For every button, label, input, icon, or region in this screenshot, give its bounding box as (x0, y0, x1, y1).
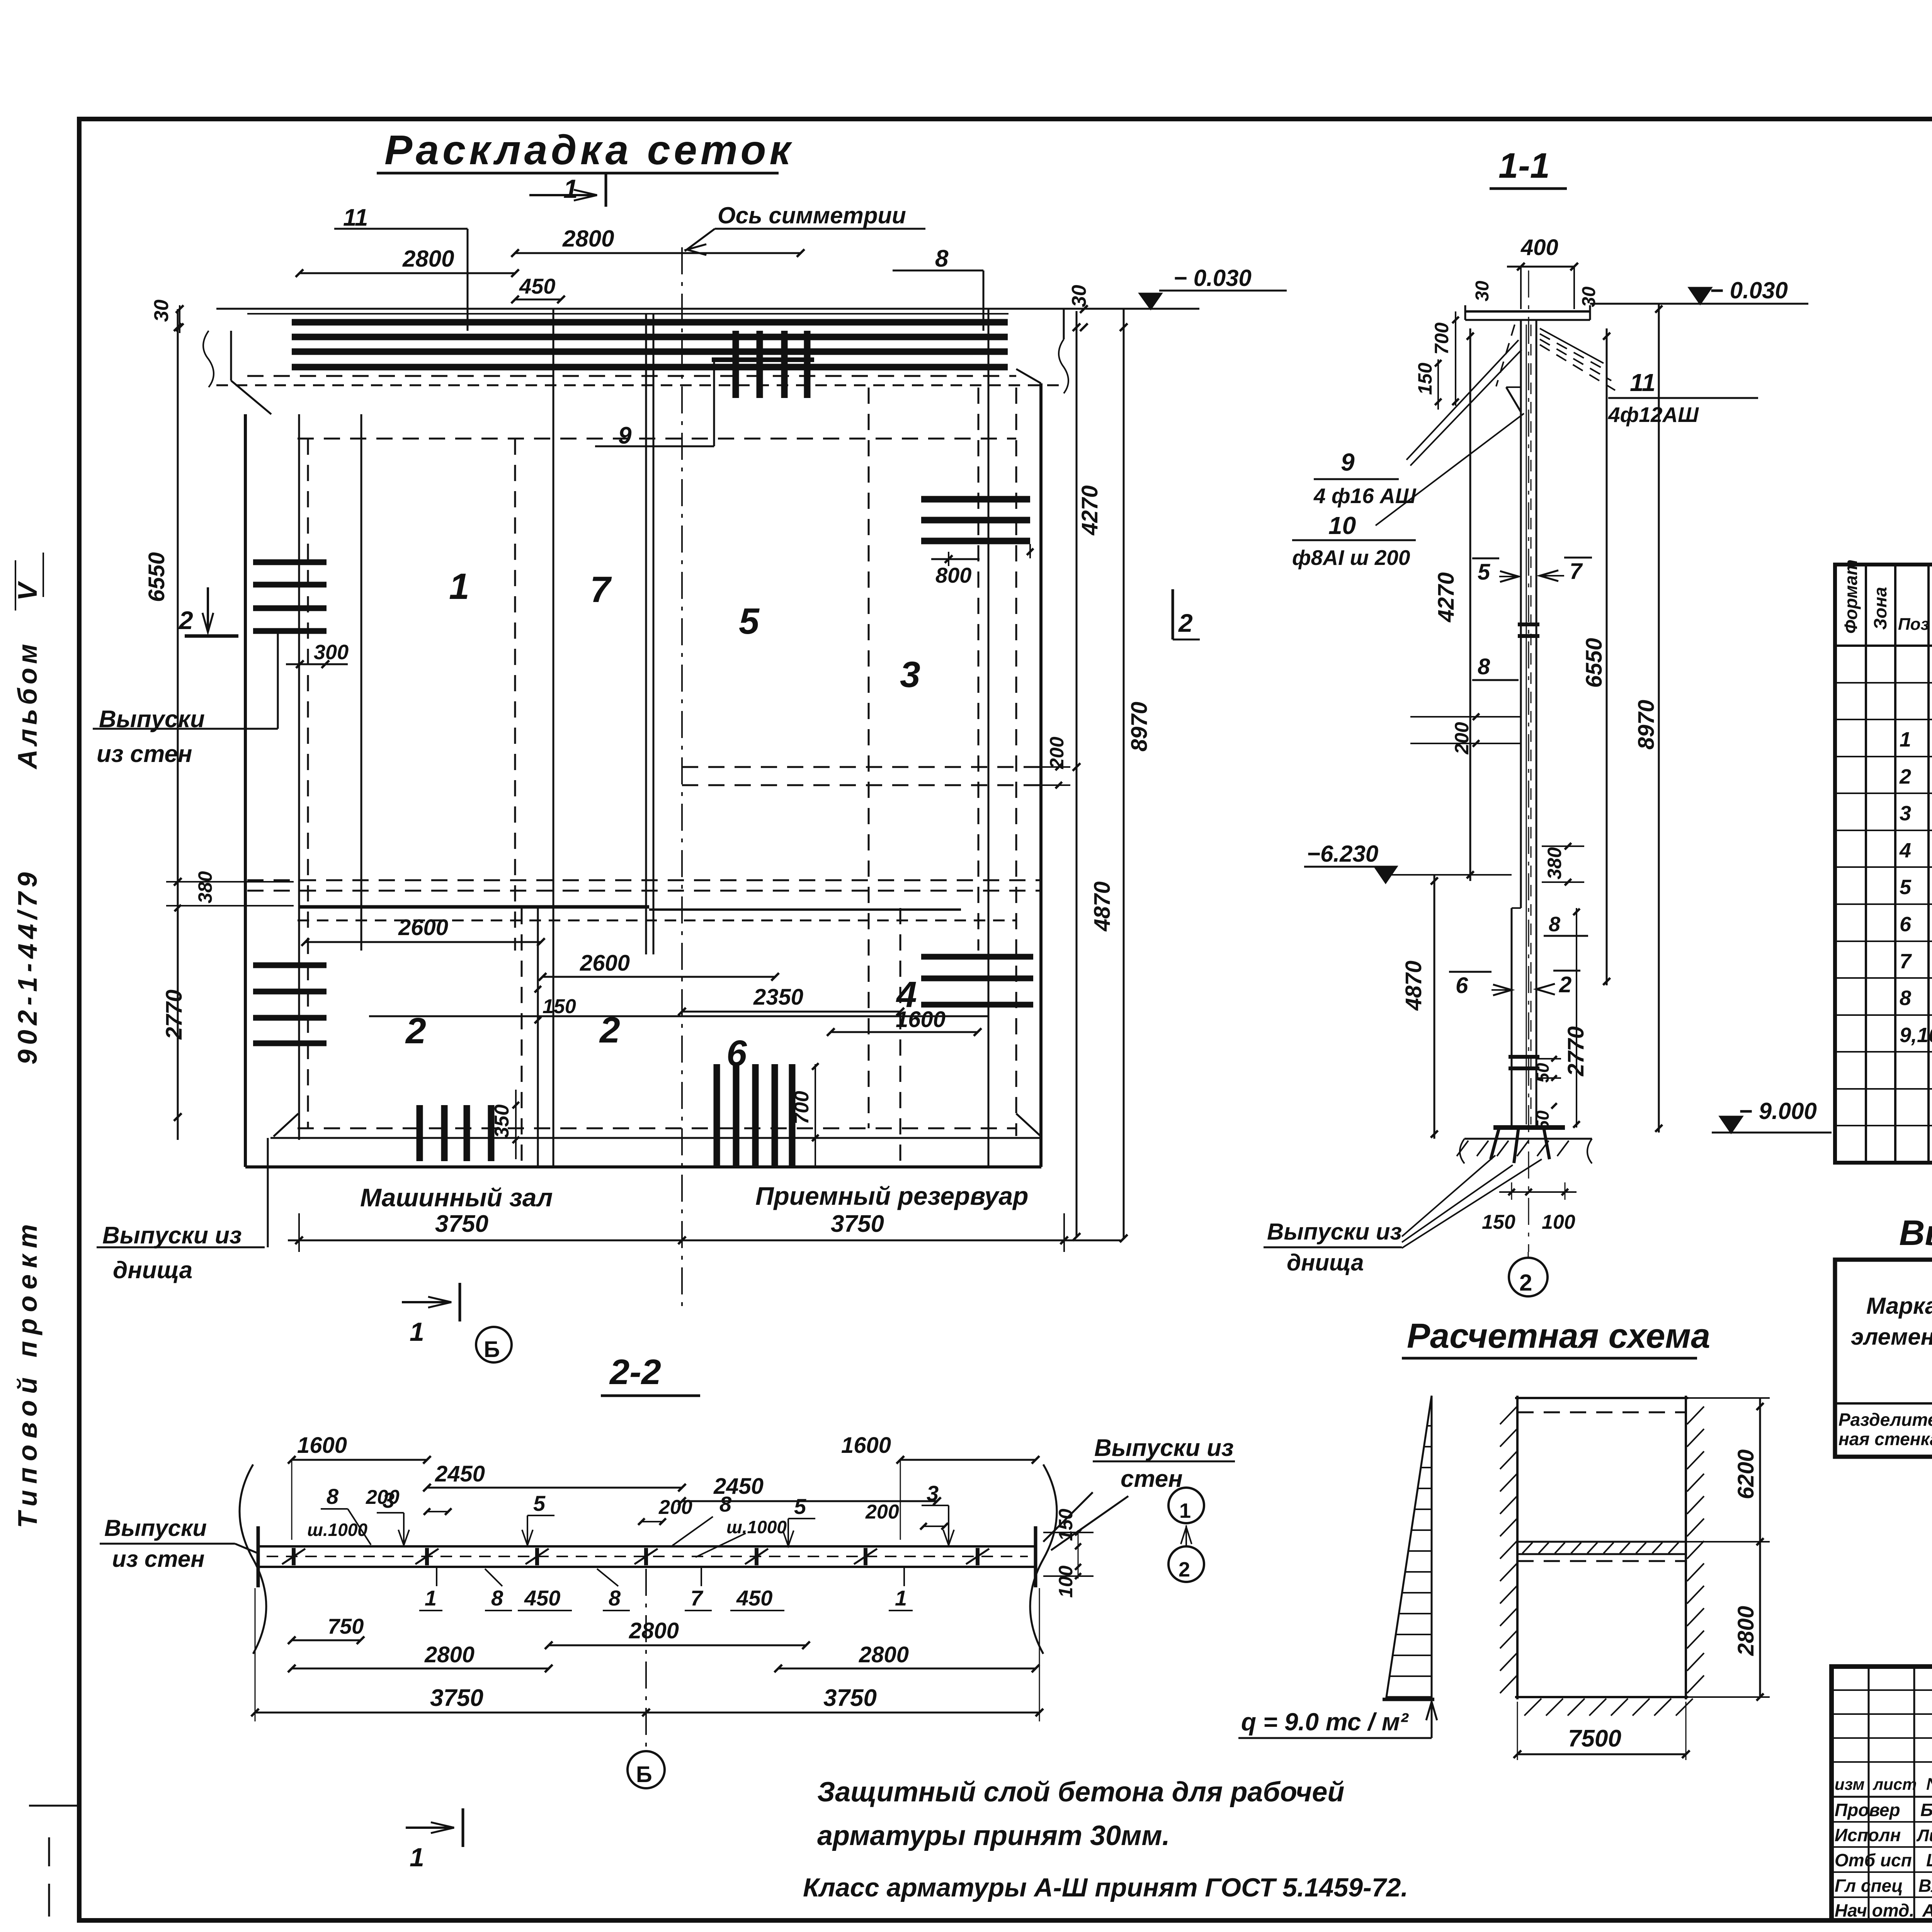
2-2 beam mesh joints (292, 1548, 296, 1565)
svg-text:5: 5 (1478, 560, 1490, 585)
svg-text:2350: 2350 (753, 985, 803, 1010)
svg-text:Раскладка сеток: Раскладка сеток (384, 126, 794, 173)
plan top wall right end (1063, 309, 1065, 339)
plan inner wall dashed left (307, 439, 309, 1128)
svg-text:200: 200 (1046, 736, 1068, 769)
svg-text:7500: 7500 (1568, 1725, 1621, 1752)
svg-text:Отб исп: Отб исп (1835, 1850, 1912, 1870)
svg-text:150: 150 (1414, 362, 1436, 395)
svg-text:200: 200 (865, 1501, 899, 1523)
svg-text:ная стенка: ная стенка (1838, 1429, 1932, 1449)
svg-text:30: 30 (150, 299, 173, 322)
1-1 mesh splice marks lower (1509, 1055, 1539, 1059)
svg-text:700: 700 (791, 1091, 813, 1124)
bar group right lower (921, 954, 1033, 960)
svg-text:3: 3 (383, 1488, 395, 1512)
plan internal vertical dashed f (978, 388, 980, 951)
svg-text:1600: 1600 (896, 1007, 946, 1032)
plan outer wall left edge (244, 414, 247, 1167)
svg-text:4870: 4870 (1090, 881, 1115, 932)
svg-text:100: 100 (1055, 1565, 1077, 1598)
svg-text:3: 3 (900, 654, 920, 695)
svg-text:6200: 6200 (1733, 1449, 1759, 1499)
svg-text:300: 300 (314, 641, 349, 664)
axis circle Б plan (476, 1327, 512, 1362)
svg-text:− 9.000: − 9.000 (1739, 1098, 1817, 1124)
svg-text:Ось симметрии: Ось симметрии (718, 202, 906, 228)
1-1 leader lines to 9 and 10 (1406, 340, 1519, 460)
svg-text:4270: 4270 (1077, 485, 1102, 536)
svg-text:днища: днища (1287, 1250, 1364, 1276)
svg-text:7: 7 (690, 1586, 704, 1610)
axis circle 2 of section (1509, 1258, 1548, 1296)
plan mid dashed pair (247, 879, 1041, 881)
svg-text:9: 9 (618, 422, 632, 449)
svg-text:Марка: Марка (1866, 1293, 1932, 1319)
svg-text:1: 1 (410, 1843, 424, 1872)
svg-text:Выпуски из: Выпуски из (102, 1222, 242, 1249)
2-2 axis circles 1 2 (1168, 1488, 1204, 1523)
svg-text:700: 700 (1431, 322, 1452, 355)
svg-text:2: 2 (1899, 765, 1911, 788)
plan inner wall left face (298, 414, 300, 1140)
svg-text:200: 200 (658, 1496, 692, 1519)
svg-text:Шкляр: Шкляр (1926, 1850, 1932, 1870)
svg-text:2600: 2600 (398, 915, 448, 940)
svg-text:3750: 3750 (430, 1685, 483, 1711)
svg-text:30: 30 (1579, 286, 1599, 307)
svg-text:30: 30 (1472, 281, 1493, 301)
svg-text:q = 9.0 тс / м²: q = 9.0 тс / м² (1241, 1708, 1409, 1736)
svg-text:ш.1000: ш.1000 (726, 1517, 787, 1537)
svg-text:7: 7 (590, 569, 612, 610)
1-1 top cap (1465, 310, 1590, 313)
svg-text:2: 2 (1178, 609, 1193, 637)
plan internal vertical g (988, 309, 990, 1167)
svg-text:Класс арматуры А-Ш принят ГО: Класс арматуры А-Ш принят ГОСТ 5.1459-72… (803, 1873, 1408, 1902)
svg-text:3750: 3750 (823, 1685, 877, 1711)
svg-text:450: 450 (524, 1586, 560, 1610)
svg-text:380: 380 (194, 871, 216, 903)
svg-text:2: 2 (599, 1010, 620, 1051)
svg-text:5: 5 (794, 1494, 806, 1519)
plan top wall left end break (230, 331, 232, 381)
svg-text:2: 2 (405, 1010, 426, 1051)
svg-text:2: 2 (178, 606, 193, 634)
soil hatch right (1687, 1406, 1704, 1424)
1-1 centre axis (1528, 270, 1529, 1252)
svg-text:30: 30 (1068, 285, 1090, 307)
svg-text:из стен: из стен (112, 1546, 204, 1572)
svg-text:− 0.030: − 0.030 (1710, 277, 1788, 303)
bar group bottom left vertical (417, 1105, 423, 1161)
plan top wall outline (216, 308, 1199, 310)
svg-text:Формат: Формат (1841, 560, 1861, 634)
svg-text:2800: 2800 (562, 226, 614, 252)
load triangle (1386, 1396, 1432, 1697)
svg-text:2: 2 (1559, 972, 1571, 997)
plan outer wall right edge (1039, 383, 1043, 1167)
bar group left upper (253, 560, 327, 565)
svg-text:изм: изм (1835, 1775, 1865, 1793)
load arrow (1431, 1702, 1433, 1738)
svg-text:Разделитель-: Разделитель- (1838, 1410, 1932, 1430)
svg-text:Машинный зал: Машинный зал (360, 1183, 553, 1212)
svg-text:Боровик: Боровик (1920, 1800, 1932, 1820)
2-2 beam inner dashes (267, 1556, 1028, 1557)
svg-text:Поз: Поз (1898, 615, 1929, 634)
tank walls (1516, 1396, 1519, 1699)
plan inner wall dashed right (1015, 388, 1017, 1136)
svg-text:2450: 2450 (435, 1461, 485, 1486)
bar group bottom middle vertical (714, 1064, 720, 1167)
1-1 leader lines to 11 (1540, 328, 1604, 363)
svg-text:1: 1 (1179, 1499, 1191, 1522)
svg-text:Выпуски из: Выпуски из (1267, 1219, 1402, 1245)
svg-text:2770: 2770 (162, 990, 187, 1040)
svg-text:Зона: Зона (1870, 587, 1890, 630)
svg-text:7: 7 (1900, 950, 1912, 973)
svg-text:902-1-44/79: 902-1-44/79 (12, 867, 43, 1065)
plan internal vertical double d (645, 314, 647, 954)
svg-text:Власенко: Власенко (1918, 1876, 1932, 1896)
svg-text:− 0.030: − 0.030 (1173, 265, 1252, 291)
svg-text:8: 8 (327, 1484, 339, 1509)
svg-text:Гл спец: Гл спец (1835, 1876, 1903, 1896)
svg-text:1: 1 (895, 1586, 907, 1610)
svg-text:5: 5 (739, 601, 760, 642)
load triangle base (1383, 1698, 1434, 1701)
2-2 axis circle Б (628, 1751, 665, 1788)
svg-text:8: 8 (719, 1492, 732, 1516)
svg-text:лист: лист (1872, 1775, 1917, 1793)
svg-text:Типовой проект: Типовой проект (12, 1218, 43, 1528)
svg-text:Выпуски из: Выпуски из (1094, 1435, 1234, 1461)
plan internal vertical dashed b (514, 439, 516, 951)
svg-text:№докум.: №докум. (1926, 1775, 1932, 1794)
bar group right upper (921, 496, 1030, 503)
2-2 right break arc (1030, 1464, 1057, 1654)
svg-text:арматуры принят 30мм.: арматуры принят 30мм. (817, 1820, 1170, 1851)
svg-text:150: 150 (1482, 1211, 1515, 1233)
section mark 1 bottom (402, 1301, 451, 1303)
svg-text:2800: 2800 (629, 1618, 679, 1643)
svg-text:ш.1000: ш.1000 (307, 1520, 367, 1540)
svg-text:4 ф16 АШ: 4 ф16 АШ (1313, 484, 1417, 508)
1-1 wall inner bars (1526, 325, 1527, 1124)
svg-text:8970: 8970 (1634, 700, 1659, 750)
svg-text:4: 4 (1899, 839, 1911, 862)
svg-text:4870: 4870 (1401, 961, 1426, 1011)
svg-text:1600: 1600 (841, 1433, 891, 1458)
svg-text:6: 6 (1900, 913, 1912, 936)
svg-text:Альбом: Альбом (12, 640, 43, 770)
plan top wall dashed lines (247, 375, 1016, 377)
svg-text:6550: 6550 (1582, 638, 1607, 688)
svg-text:днища: днища (113, 1257, 192, 1284)
2-2 beam outline (258, 1545, 1036, 1548)
svg-text:450: 450 (736, 1586, 772, 1610)
svg-text:Нач отд.: Нач отд. (1835, 1900, 1914, 1920)
svg-text:1600: 1600 (297, 1433, 347, 1458)
svg-text:2800: 2800 (859, 1642, 909, 1667)
svg-text:1: 1 (425, 1586, 437, 1610)
svg-text:3750: 3750 (435, 1211, 488, 1237)
svg-text:150: 150 (543, 995, 576, 1018)
svg-text:8970: 8970 (1127, 702, 1152, 752)
svg-text:400: 400 (1520, 235, 1558, 260)
plan internal vertical mesh line a (361, 414, 362, 951)
svg-text:11: 11 (343, 204, 368, 231)
svg-text:5: 5 (1900, 876, 1912, 899)
mesh 2 right edge lines (521, 908, 523, 1167)
svg-text:Приемный резервуар: Приемный резервуар (755, 1182, 1028, 1210)
svg-text:50: 50 (1532, 1110, 1553, 1130)
title block left grid horizontals (1832, 1689, 1932, 1691)
svg-text:3: 3 (927, 1481, 939, 1505)
tank mid slab (1517, 1541, 1686, 1543)
svg-text:750: 750 (328, 1614, 364, 1638)
table Выборка frame (1835, 1260, 1932, 1457)
svg-text:Расчетная схема: Расчетная схема (1407, 1317, 1710, 1355)
svg-text:1: 1 (1900, 728, 1911, 751)
svg-text:8: 8 (1900, 986, 1911, 1010)
svg-text:стен: стен (1121, 1466, 1183, 1492)
2-2 left break arc (240, 1464, 266, 1654)
svg-text:1: 1 (410, 1317, 424, 1347)
svg-text:7: 7 (1570, 559, 1583, 584)
svg-text:350: 350 (491, 1104, 513, 1138)
svg-text:2600: 2600 (580, 951, 630, 976)
svg-text:8: 8 (1478, 654, 1490, 679)
svg-text:2-2: 2-2 (609, 1352, 661, 1392)
bar group top middle vertical (733, 331, 739, 398)
1-1 foot (1493, 1125, 1565, 1130)
soil hatch bottom (1524, 1699, 1541, 1716)
svg-text:2800: 2800 (402, 246, 454, 272)
svg-text:8: 8 (609, 1586, 621, 1610)
svg-text:9: 9 (1341, 448, 1355, 476)
1-1 ground hatch (1457, 1141, 1468, 1156)
svg-text:10: 10 (1328, 512, 1356, 539)
svg-text:V: V (12, 581, 43, 601)
svg-text:4ф12АШ: 4ф12АШ (1608, 403, 1699, 427)
plan top wall bold bars (292, 319, 1008, 326)
svg-text:из стен: из стен (97, 741, 192, 767)
svg-text:3: 3 (1900, 802, 1911, 825)
svg-text:3750: 3750 (831, 1211, 884, 1237)
soil hatch left (1500, 1406, 1517, 1424)
svg-text:450: 450 (519, 274, 555, 298)
svg-text:6: 6 (1456, 973, 1468, 998)
tick on left frame (29, 1805, 79, 1807)
1-1 mesh splice marks upper (1518, 622, 1539, 626)
svg-text:Выпуски: Выпуски (104, 1515, 207, 1541)
plan horizontal dashed mesh top (298, 438, 1016, 440)
svg-text:−6.230: −6.230 (1307, 841, 1378, 867)
svg-text:150: 150 (1055, 1509, 1077, 1541)
svg-text:800: 800 (935, 563, 971, 587)
svg-text:2: 2 (1519, 1270, 1532, 1296)
1-1 wall column (1520, 320, 1522, 908)
plan right strip dashed lines 200 (682, 766, 1041, 768)
svg-text:элемента: элемента (1851, 1324, 1932, 1350)
title block left grid verticals (1868, 1667, 1870, 1922)
fold marks bottom left (48, 1837, 50, 1866)
svg-text:Б: Б (636, 1762, 652, 1787)
section mark 2 right (1172, 589, 1174, 639)
plan bottom lines (298, 1128, 1016, 1129)
svg-text:50: 50 (1532, 1063, 1553, 1083)
svg-text:5: 5 (533, 1491, 546, 1515)
svg-text:6550: 6550 (144, 552, 169, 602)
plan internal vertical dashed e (868, 388, 870, 1128)
title block frame (1832, 1667, 1932, 1920)
specification table frame (1835, 565, 1932, 1163)
svg-text:100: 100 (1542, 1211, 1575, 1233)
svg-text:200: 200 (1451, 722, 1473, 755)
plan bottom corner chamfers (274, 1114, 298, 1136)
plan mid solid boundary (299, 905, 649, 909)
svg-text:2800: 2800 (1733, 1606, 1759, 1656)
svg-text:1: 1 (449, 566, 469, 607)
svg-text:1-1: 1-1 (1498, 146, 1550, 185)
svg-text:380: 380 (1544, 847, 1565, 879)
svg-text:8: 8 (1549, 913, 1560, 936)
svg-text:Б: Б (484, 1337, 500, 1362)
plan internal vertical c (553, 309, 554, 1167)
tank bottom (1515, 1696, 1688, 1698)
svg-text:Исполн: Исполн (1835, 1825, 1901, 1845)
plan centre axis (681, 247, 683, 1314)
svg-text:Защитный слой бетона для ра: Защитный слой бетона для рабочей (817, 1777, 1344, 1808)
svg-text:Выборка стали на один элеме: Выборка стали на один элемент, кг (1899, 1213, 1932, 1253)
svg-text:11: 11 (1630, 369, 1655, 396)
bar group left lower (253, 963, 327, 968)
svg-text:Провер: Провер (1835, 1800, 1900, 1820)
mesh 4 left edge (900, 908, 901, 1167)
svg-text:8: 8 (935, 245, 949, 272)
1-1 foot dowels (1491, 1128, 1499, 1159)
svg-text:8: 8 (491, 1586, 503, 1610)
2-2 section mark 1 bottom (406, 1827, 454, 1829)
svg-text:2800: 2800 (424, 1642, 474, 1667)
svg-text:Литвиненко: Литвиненко (1916, 1826, 1932, 1845)
svg-text:АрсеноЬ: АрсеноЬ (1922, 1900, 1932, 1920)
2-2 beam end plates (257, 1526, 260, 1587)
svg-text:2: 2 (1179, 1558, 1190, 1581)
svg-text:9,10: 9,10 (1900, 1024, 1932, 1047)
svg-text:ф8АI ш 200: ф8АI ш 200 (1292, 546, 1410, 570)
svg-text:4270: 4270 (1434, 572, 1459, 622)
